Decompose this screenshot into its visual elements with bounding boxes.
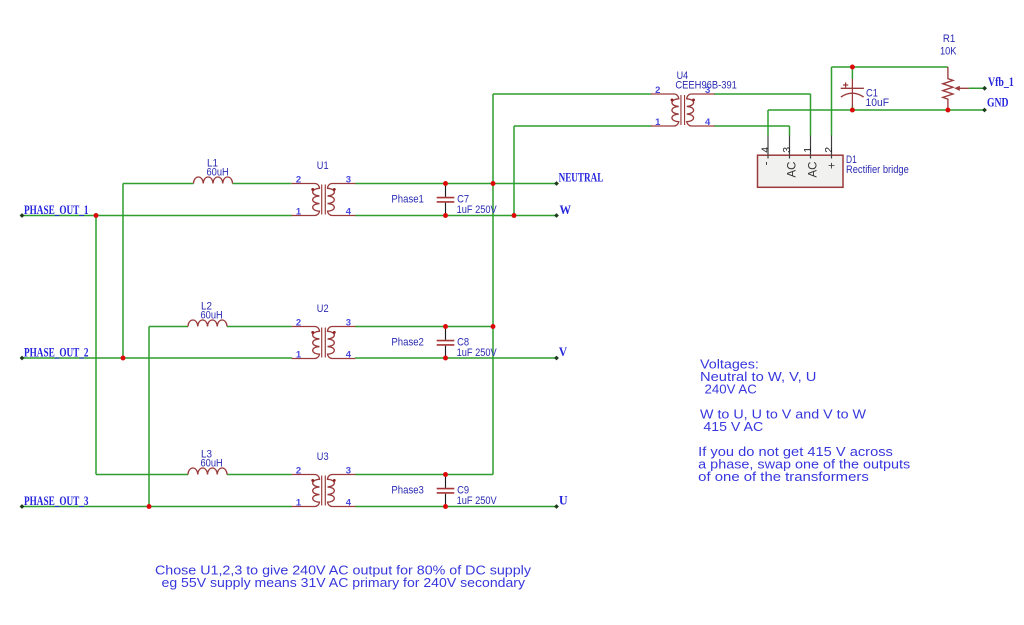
- svg-text:AC: AC: [807, 162, 819, 178]
- inductor L2: [188, 320, 227, 327]
- inductor L3: [188, 468, 227, 475]
- capacitor C9: [437, 475, 455, 507]
- wire U2 pin3 to neutral riser: [355, 326, 493, 328]
- net open-end U end: [554, 504, 559, 509]
- wire positive top rail: [832, 66, 948, 68]
- svg-text:1: 1: [296, 498, 302, 509]
- svg-text:Rectifier bridge: Rectifier bridge: [846, 164, 909, 176]
- wire D1 pin2 riser to +rail: [831, 67, 833, 136]
- wire U4 pin4 east: [714, 125, 790, 127]
- svg-text:1: 1: [296, 207, 302, 218]
- svg-text:R1: R1: [943, 33, 955, 45]
- svg-text:eg 55V supply means 31V AC pri: eg 55V supply means 31V AC primary for 2…: [162, 575, 526, 590]
- svg-text:3: 3: [346, 175, 351, 186]
- capacitor C1: [841, 79, 864, 107]
- wire C1 top lead wire: [851, 67, 853, 79]
- svg-text:AC: AC: [786, 162, 798, 178]
- wire U3 pin4 to U label: [355, 506, 557, 508]
- wire C1 bottom lead wire: [851, 106, 853, 111]
- wire U2 pin4 to V label: [355, 357, 557, 359]
- svg-text:NEUTRAL: NEUTRAL: [559, 170, 604, 184]
- capacitor C8: [437, 327, 455, 359]
- note block: bottom: [155, 563, 532, 590]
- svg-text:2: 2: [296, 318, 301, 329]
- svg-text:1uF 250V: 1uF 250V: [457, 347, 498, 359]
- svg-text:of one of the transformers: of one of the transformers: [698, 469, 869, 484]
- wire W riser x514: [513, 126, 515, 216]
- transformer U4: [651, 85, 715, 128]
- svg-text:1uF 250V: 1uF 250V: [457, 495, 498, 507]
- net open-end V end: [554, 356, 559, 361]
- net open-end W end: [554, 213, 559, 218]
- svg-text:10uF: 10uF: [866, 97, 890, 109]
- wire L2 to U2 pin2: [227, 326, 292, 328]
- junction C8 top: [443, 324, 448, 329]
- wire PHASE_OUT_2 to U2 pin1: [22, 357, 292, 359]
- wire U1 pin4 to W label: [355, 215, 557, 217]
- junction C7 bottom: [443, 213, 448, 218]
- wire vertical U1 pin2 to PHASE_OUT_2: [122, 184, 124, 359]
- junction C9 top: [443, 472, 448, 477]
- svg-text:2: 2: [823, 147, 835, 153]
- junction neutral row2: [491, 324, 496, 329]
- svg-text:1: 1: [296, 350, 302, 361]
- wire L3 to U3 pin2: [227, 474, 292, 476]
- wire U4 pin3 east: [714, 93, 811, 95]
- net open-end PHASE_OUT_1 end: [20, 213, 25, 218]
- svg-text:Vfb_1: Vfb_1: [988, 75, 1014, 89]
- wire vertical U2 pin2 to PHASE_OUT_3: [148, 327, 150, 507]
- transformer U1: [292, 175, 356, 218]
- wire down to D1 pin1: [810, 94, 812, 136]
- svg-text:4: 4: [705, 117, 711, 128]
- resistor R1 (pot): [943, 67, 969, 110]
- svg-text:U1: U1: [317, 160, 329, 172]
- junction R1 bottom: [945, 108, 950, 113]
- junction phase2/riser: [121, 356, 126, 361]
- junction C9 bottom: [443, 504, 448, 509]
- svg-text:1: 1: [802, 147, 814, 153]
- svg-text:3: 3: [781, 147, 793, 153]
- wire row1 top left to L1: [123, 183, 194, 185]
- net open-end PHASE_OUT_3 end: [20, 504, 25, 509]
- svg-text:U: U: [559, 494, 568, 508]
- svg-text:2: 2: [655, 85, 660, 96]
- svg-text:Phase3: Phase3: [391, 485, 424, 497]
- transformer U2: [292, 318, 356, 361]
- svg-text:-: -: [761, 161, 773, 165]
- svg-text:3: 3: [346, 318, 351, 329]
- wire L1 to U1 pin2: [233, 183, 292, 185]
- wire GND rail: [768, 109, 985, 111]
- svg-text:4: 4: [346, 350, 352, 361]
- wire vertical PHASE_OUT_1 to row3 top: [95, 216, 97, 475]
- junction C1 top: [850, 65, 855, 70]
- svg-text:3: 3: [346, 466, 351, 477]
- wire PHASE_OUT_3 to U3 pin1: [22, 506, 292, 508]
- wire down to D1 pin3: [789, 126, 791, 136]
- net open-end GND end: [982, 108, 987, 113]
- wire riser to U4 pin1: [514, 125, 652, 127]
- net open-end PHASE_OUT_2 end: [20, 356, 25, 361]
- svg-text:4: 4: [346, 207, 352, 218]
- wire riser to U4 pin2: [493, 93, 652, 95]
- svg-text:60uH: 60uH: [201, 458, 223, 470]
- transformer U3: [292, 466, 356, 509]
- svg-text:U2: U2: [317, 303, 329, 315]
- wire U3 pin3 to neutral riser: [355, 474, 493, 476]
- svg-text:2: 2: [296, 466, 301, 477]
- svg-text:U3: U3: [317, 451, 329, 463]
- net open-end Vfb_1 end: [982, 86, 987, 91]
- wire neutral riser x493: [492, 94, 494, 475]
- svg-text:1uF 250V: 1uF 250V: [457, 204, 498, 216]
- svg-text:PHASE_OUT_2: PHASE_OUT_2: [24, 345, 89, 359]
- junction neutral row1: [491, 181, 496, 186]
- svg-text:Phase2: Phase2: [391, 337, 424, 349]
- wire row3 top left to L3: [96, 474, 188, 476]
- junction C7 top: [443, 181, 448, 186]
- wire R1 wiper to Vfb_1: [969, 87, 985, 89]
- svg-text:Phase1: Phase1: [391, 194, 424, 206]
- net open-end NEUTRAL end: [554, 181, 559, 186]
- svg-text:2: 2: [296, 175, 301, 186]
- svg-text:1: 1: [655, 117, 661, 128]
- rectifier bridge D1: [758, 136, 844, 188]
- svg-text:V: V: [559, 345, 567, 359]
- wire PHASE_OUT_1 to U1 pin1: [22, 215, 292, 217]
- wire U1 pin3 to NEUTRAL label: [355, 183, 557, 185]
- svg-text:CEEH96B-391: CEEH96B-391: [675, 80, 737, 92]
- junction C8 bottom: [443, 356, 448, 361]
- junction phase1/down: [94, 213, 99, 218]
- svg-text:60uH: 60uH: [201, 310, 223, 322]
- junction phase3/riser: [147, 504, 152, 509]
- junction W row1: [512, 213, 517, 218]
- svg-text:+: +: [826, 162, 838, 169]
- svg-text:415 V AC: 415 V AC: [703, 419, 763, 434]
- capacitor C7: [437, 184, 455, 216]
- svg-text:W: W: [560, 203, 572, 217]
- svg-text:240V AC: 240V AC: [705, 381, 757, 396]
- svg-text:PHASE_OUT_1: PHASE_OUT_1: [24, 203, 89, 217]
- svg-text:60uH: 60uH: [207, 167, 229, 179]
- junction C1 bottom: [850, 108, 855, 113]
- wire D1 pin4 riser to GND rail: [767, 110, 769, 136]
- inductor L1: [194, 177, 233, 184]
- svg-text:10K: 10K: [940, 46, 957, 58]
- wire row2 top left to L2: [149, 326, 188, 328]
- note block: voltages: [698, 357, 911, 484]
- svg-text:4: 4: [346, 498, 352, 509]
- svg-text:GND: GND: [987, 96, 1009, 110]
- svg-text:4: 4: [760, 147, 772, 153]
- svg-text:PHASE_OUT_3: PHASE_OUT_3: [24, 494, 89, 508]
